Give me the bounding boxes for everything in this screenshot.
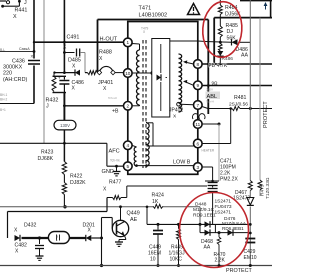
tap arrow to pin9 [185, 82, 194, 86]
wire x=230.7 up [230, 109, 232, 144]
resistor R449 (zigzag) [178, 224, 180, 228]
svg-text:6: 6 [197, 141, 200, 146]
wire: AFC corner down x=106.9 [106, 143, 108, 166]
capacitor C436 [28, 60, 40, 62]
capacitor C471 (double) [208, 182, 218, 184]
wire: left vertical bus x=34 upper segment [33, 0, 35, 59]
svg-text:DJ: DJ [227, 29, 234, 35]
wire: top-left switch cluster with junction dots [0, 0, 6, 2]
wire y=181 short [205, 180, 219, 182]
resistor R432 (zigzag) with capacitor C486 parallel [53, 73, 55, 77]
svg-text:PROTECT: PROTECT [226, 268, 252, 274]
svg-text:130V: 130V [60, 123, 70, 128]
wire R481 right [240, 108, 272, 110]
wire: CassA line y=51.5 [0, 51, 34, 53]
pin 2 [124, 102, 133, 111]
secondary winding coil [179, 54, 182, 112]
resistor R477 (zigzag) [113, 196, 122, 200]
wire: thick vertical x=97.5 (H-OUT loop) [97, 20, 99, 73]
svg-text:+B: +B [112, 109, 119, 115]
lower winding (low B) [147, 123, 150, 166]
node CassA [33, 50, 36, 53]
HV winding block [152, 39, 170, 118]
diode D467 (outline, down) [247, 198, 254, 206]
wire: gray vertical x=44 [43, 0, 45, 143]
arrow up pin1 marker [265, 4, 267, 10]
svg-text:AE: AE [130, 217, 138, 223]
svg-text:J: J [46, 104, 49, 110]
wire resonator to D201 [69, 237, 85, 239]
svg-text:T1Z0.33Ω: T1Z0.33Ω [265, 177, 271, 199]
node dots on pin8 row [207, 63, 210, 66]
wire pin6 row [150, 145, 194, 147]
svg-text:R441: R441 [15, 8, 28, 14]
svg-text:CassA: CassA [19, 47, 30, 51]
node GND junction [115, 165, 118, 168]
svg-text:L40B10902: L40B10902 [139, 13, 168, 19]
svg-text:R424: R424 [152, 193, 165, 199]
wire: black row y=211.5 [8, 211, 108, 213]
wire: 130V rail x=64.4 top [63, 0, 65, 73]
svg-text:R475: R475 [260, 184, 266, 196]
diode D476 [228, 230, 234, 236]
svg-text:PM2.2X: PM2.2X [220, 177, 238, 183]
diode D486 [232, 39, 238, 45]
svg-text:R422: R422 [70, 174, 83, 180]
svg-text:DJ82K: DJ82K [70, 180, 86, 186]
svg-text:R488: R488 [99, 50, 112, 56]
svg-text:1S2471: 1S2471 [215, 199, 232, 205]
pin 7 [194, 101, 203, 110]
svg-text:7: 7 [197, 103, 200, 108]
winding bottom connect [178, 105, 180, 112]
svg-text:11: 11 [195, 122, 200, 127]
jumper JP401 (arc) [100, 66, 114, 72]
resistor R484 (zigzag) [219, 0, 221, 5]
diode D201 [86, 235, 92, 241]
node 130V balloon [54, 120, 76, 130]
primary winding coil [137, 50, 140, 105]
wire R422 to rail [63, 195, 65, 207]
svg-text:R423: R423 [41, 150, 54, 156]
diode D483 (down) [217, 51, 223, 56]
wire: thick vertical x=208.3 (right drop) [207, 20, 209, 115]
pin 3 [194, 163, 203, 172]
wire: corner x=107 up to R477 [106, 198, 108, 212]
wire pin9 row y=85.5 [202, 85, 272, 87]
node +B junction [63, 104, 66, 107]
wire: emitter row y=224.4 [147, 223, 250, 225]
wire: bottom bus y=265.5 [0, 265, 272, 267]
svg-text:8: 8 [197, 62, 200, 67]
wire: D485 row y=72.6 [55, 72, 76, 74]
wire: 130V rail x=64.4 mid [63, 93, 65, 121]
wire to C491 [64, 52, 74, 54]
wire between R423 R422 [63, 175, 65, 183]
core (dashed lines) [142, 40, 144, 168]
wire Q449 collector [120, 207, 122, 221]
node D201 junction [100, 237, 103, 240]
tap arrow to pin8 [185, 62, 194, 64]
wire D432 to resonator [22, 237, 49, 239]
pin 10 [124, 69, 133, 78]
resistor R475 (zigzag) [258, 180, 262, 190]
heater curls [193, 114, 199, 119]
wire up to Q449 base row [101, 218, 103, 239]
svg-text:Tch-Vk: Tch-Vk [110, 159, 120, 163]
svg-text:B+1: B+1 [0, 108, 6, 112]
svg-text:FU0473: FU0473 [215, 204, 232, 210]
svg-text:J: J [24, 0, 27, 6]
pin 5 [124, 162, 133, 171]
svg-text:AA: AA [241, 53, 248, 59]
node R485/D486 junction [219, 41, 222, 44]
capacitor C482 [39, 238, 41, 244]
svg-text:R481: R481 [234, 95, 247, 101]
ground symbol at pin5 [116, 166, 118, 171]
resistor R488 (zigzag) [88, 71, 98, 75]
tap to pin 10 [132, 72, 152, 74]
resistor R470 (zigzag) [218, 233, 220, 237]
wire y=186 to C471 node [127, 185, 207, 187]
svg-text:9Ω: 9Ω [212, 80, 219, 85]
svg-text:BH-2: BH-2 [0, 98, 7, 102]
wire: H-OUT line y=42.2 [34, 41, 124, 43]
svg-text:1K: 1K [152, 199, 159, 205]
svg-text:260V: 260V [206, 88, 213, 92]
ground below C482 [36, 255, 44, 257]
resistor R423 (zigzag) [62, 162, 66, 175]
node AFC-row junction [63, 142, 66, 145]
wire: corner x=7.5 down [7, 212, 9, 239]
svg-text:H-OUT: H-OUT [100, 37, 118, 43]
node R481 junction [249, 107, 252, 110]
svg-text:D448: D448 [195, 202, 207, 208]
node C482 junction [38, 236, 41, 239]
svg-text:Q449: Q449 [127, 211, 140, 217]
svg-text:AFC: AFC [109, 149, 120, 155]
svg-text:HEATER: HEATER [202, 149, 215, 153]
wire: horizontal y=103.5 to left edge [0, 103, 34, 105]
svg-text:C491: C491 [67, 35, 80, 41]
warning triangle [188, 4, 200, 15]
ground below Q449 [115, 241, 123, 243]
wire: thick top horizontal y=19.5 [98, 19, 209, 21]
svg-text:10: 10 [150, 257, 156, 263]
wire C429 gap [249, 197, 251, 241]
wire: 130V rail x=64.4 below balloon [63, 130, 65, 162]
capacitor C491 [76, 49, 78, 57]
svg-text:2: 2 [127, 104, 130, 109]
pin 9 [194, 81, 203, 90]
resistor inline on protect line [248, 181, 252, 191]
svg-text:FB 4.7K: FB 4.7K [209, 63, 228, 69]
diode D485 [75, 70, 80, 76]
wire pin7 row y=108.5 [202, 107, 208, 109]
capacitor C449 [157, 224, 159, 229]
wire: +B row y=105.8 [64, 105, 123, 107]
svg-text:Tch-HI: Tch-HI [108, 96, 117, 100]
diode inside HV block [157, 75, 162, 81]
red annotation ellipse bottom-right [180, 193, 249, 268]
wire R484-R485 [219, 15, 221, 27]
wire gray x=219 down [218, 124, 220, 181]
pin 6 [194, 139, 203, 148]
wire pin3 row right y=167 [202, 166, 213, 168]
wire protect vertical x=250.3 [249, 0, 251, 181]
node at x64 y72.6 [63, 71, 66, 74]
svg-text:+: + [58, 76, 61, 81]
red annotation ellipse top-right [201, 0, 244, 58]
resistor R481 (zigzag) [232, 107, 240, 111]
svg-text:1S2471: 1S2471 [215, 210, 232, 216]
svg-text:1: 1 [127, 40, 130, 45]
wire D201 to junction [91, 237, 101, 239]
svg-text:3: 3 [197, 165, 200, 170]
svg-text:AA: AA [204, 245, 211, 251]
svg-text:2SJ/0.56: 2SJ/0.56 [229, 102, 248, 108]
heater winding [134, 147, 136, 166]
wire pin11 row y=124 [202, 123, 219, 125]
wire base row [102, 217, 113, 219]
svg-text:T471: T471 [139, 6, 152, 12]
svg-text:5: 5 [127, 164, 130, 169]
resistor R424 (zigzag) [153, 204, 163, 208]
svg-text:X: X [31, 54, 34, 59]
wire second vertical x=260 [259, 18, 261, 180]
node bottom bus junction [100, 264, 103, 267]
node bus junction right [249, 264, 252, 267]
svg-text:BH-1: BH-1 [0, 93, 7, 97]
svg-text:B-L: B-L [0, 48, 5, 52]
resistor R485 (zigzag) [218, 26, 222, 37]
node C491 branch [63, 51, 66, 54]
node R449 junction [177, 223, 180, 226]
diode D448a [205, 221, 211, 227]
wire R485 down [219, 37, 221, 42]
svg-text:Tch-H: Tch-H [206, 100, 214, 104]
wire to R477 [107, 197, 113, 199]
svg-text:9: 9 [197, 83, 200, 88]
diode D448b [205, 230, 211, 236]
transformer T471 box [128, 22, 198, 175]
top-right connector box [240, 0, 272, 2]
capacitor C429 [245, 238, 255, 240]
wire row y=233 [200, 232, 250, 234]
svg-text:M1Z/9.1C: M1Z/9.1C [193, 207, 215, 213]
wire H-pulse row y=42.3 [198, 40, 209, 43]
wire pin6 row right y=143.5 [202, 143, 231, 145]
wire: left vertical bus x=34 lower segment [33, 66, 35, 104]
transistor Q449 [112, 220, 128, 236]
wire pin3 row [137, 165, 194, 167]
svg-text:EM10: EM10 [244, 255, 257, 261]
resistor R486 (zigzag) [219, 44, 223, 52]
svg-text:10KC: 10KC [170, 257, 183, 263]
svg-text:GND: GND [102, 169, 114, 175]
pin 4 [124, 141, 133, 150]
svg-text:10: 10 [125, 71, 131, 76]
node rail junction [63, 205, 66, 208]
wire: gray rail y=206.8 [0, 206, 153, 208]
node bus junctions [157, 264, 160, 267]
label ABL boxed [206, 92, 221, 100]
pin 11 [194, 120, 203, 129]
pin 8 [194, 60, 203, 69]
resistor R422 (zigzag) [62, 183, 66, 195]
resonator (pill) [48, 232, 69, 244]
wire: to pin5 GND [107, 165, 124, 167]
wire down to bottom bus [101, 238, 103, 266]
svg-text:X: X [13, 14, 17, 20]
node dots pin9 row [207, 84, 210, 87]
svg-text:RD9.1EB1: RD9.1EB1 [193, 213, 216, 219]
svg-text:PROTECT: PROTECT [263, 101, 269, 128]
wire HV top to right [170, 40, 198, 42]
node C449 junction [157, 223, 160, 226]
wire pin8 row y=64 [202, 63, 272, 65]
node junction H-OUT/130V-rail [63, 41, 66, 44]
pin 1 [124, 38, 133, 47]
node dots on emitter row [249, 223, 252, 226]
wire: AFC row y=143.3 [0, 142, 107, 144]
svg-text:2.2K: 2.2K [215, 258, 226, 264]
svg-text:220: 220 [3, 71, 12, 77]
wire: C491 down-drop gray [80, 52, 85, 54]
svg-text:D432: D432 [24, 223, 37, 229]
svg-text:4: 4 [127, 143, 130, 148]
svg-text:DJ68K: DJ68K [38, 156, 54, 162]
diode D432 [15, 235, 21, 241]
svg-text:LOW B: LOW B [173, 160, 191, 166]
wire: corner from rail to row [146, 207, 148, 225]
wire R477 right corner up [121, 197, 127, 199]
wire Q449 emitter [125, 236, 127, 240]
svg-text:(AH:CRD): (AH:CRD) [3, 77, 27, 83]
svg-text:R477: R477 [109, 180, 122, 186]
svg-text:JP402: JP402 [169, 108, 183, 114]
